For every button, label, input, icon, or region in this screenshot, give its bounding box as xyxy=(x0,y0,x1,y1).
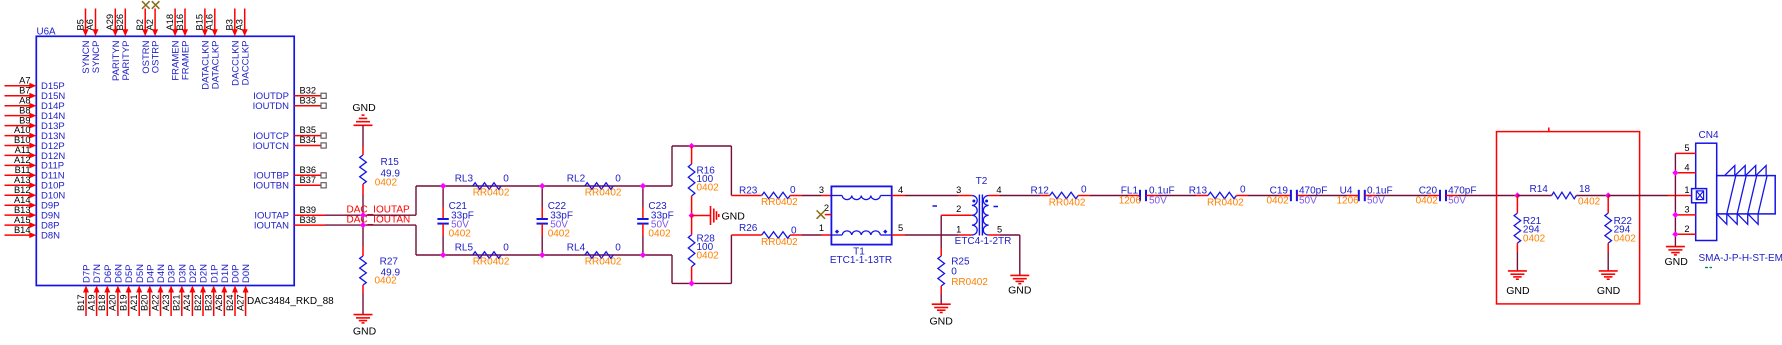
wire jog AN down to bottom rail xyxy=(415,225,417,255)
resistor RL3 0 ohm xyxy=(455,174,510,199)
svg-text:1: 1 xyxy=(1684,185,1689,195)
svg-text:0402: 0402 xyxy=(1416,196,1439,207)
resistor R12 xyxy=(1031,185,1088,209)
wire top rail jog up xyxy=(672,146,731,186)
svg-text:D3N: D3N xyxy=(177,264,188,283)
svg-text:0402: 0402 xyxy=(449,229,472,240)
svg-text:0: 0 xyxy=(790,185,796,196)
svg-text:B21: B21 xyxy=(172,295,182,312)
resistor R26 xyxy=(731,223,831,248)
wire T1 pin4 to T2 pin3 xyxy=(892,195,972,197)
svg-text:0: 0 xyxy=(503,243,509,254)
capacitor U4 0.1uF xyxy=(1337,186,1393,207)
junction R16 top xyxy=(688,143,694,149)
wire IOUTAN to jog xyxy=(325,224,416,226)
svg-text:GND: GND xyxy=(1506,285,1530,297)
net label DAC_IOUTAN xyxy=(347,215,411,226)
svg-text:PARITYP: PARITYP xyxy=(121,41,132,81)
svg-text:A10: A10 xyxy=(14,125,31,135)
wire bottom rail xyxy=(416,254,672,256)
svg-text:A15: A15 xyxy=(14,215,31,225)
svg-text:D7N: D7N xyxy=(92,264,103,283)
svg-text:DATACLKP: DATACLKP xyxy=(210,41,221,90)
svg-text:0: 0 xyxy=(503,174,509,185)
svg-text:GND: GND xyxy=(930,316,954,328)
svg-text:A8: A8 xyxy=(19,95,30,105)
resistor R25 xyxy=(938,256,988,288)
net label DAC_IOUTAP xyxy=(347,205,410,216)
svg-text:4: 4 xyxy=(996,185,1001,195)
svg-text:0: 0 xyxy=(1081,185,1087,196)
svg-text:A29: A29 xyxy=(105,14,115,31)
svg-text:50V: 50V xyxy=(1448,196,1466,207)
wire R13 to C19 xyxy=(1236,195,1291,197)
svg-text:3: 3 xyxy=(1684,205,1689,215)
IC part value DAC3484_RKD_88 xyxy=(247,296,334,307)
svg-text:RR0402: RR0402 xyxy=(761,197,798,208)
CN4 ground bus xyxy=(1674,153,1676,246)
junction CN4 pin2 xyxy=(1672,231,1678,237)
CN4 thread (SMA screw) xyxy=(1717,166,1776,225)
svg-text:A23: A23 xyxy=(161,295,171,312)
svg-text:R15: R15 xyxy=(381,157,400,168)
svg-text:D4P: D4P xyxy=(145,265,156,283)
svg-text:50V: 50V xyxy=(1149,196,1167,207)
svg-text:B2: B2 xyxy=(135,19,145,30)
svg-text:R13: R13 xyxy=(1189,186,1208,197)
IC bottom pins with pin numbers xyxy=(76,264,252,316)
svg-text:D8N: D8N xyxy=(41,230,60,241)
svg-text:D0N: D0N xyxy=(241,264,252,283)
svg-text:B18: B18 xyxy=(97,295,107,312)
svg-text:RL3: RL3 xyxy=(455,174,474,185)
ground under T2 pin5 xyxy=(1008,275,1032,296)
svg-text:0402: 0402 xyxy=(697,250,720,261)
svg-text:B35: B35 xyxy=(300,125,317,135)
ground under R25 xyxy=(930,304,954,327)
svg-text:A13: A13 xyxy=(14,175,31,185)
svg-text:R27: R27 xyxy=(380,257,399,268)
svg-text:D4N: D4N xyxy=(156,264,167,283)
svg-text:DACCLKP: DACCLKP xyxy=(240,41,251,86)
svg-text:A3: A3 xyxy=(235,19,245,30)
resistor R22 xyxy=(1605,196,1636,271)
IC top pins with pin numbers xyxy=(75,9,251,90)
ground sideways between R16 and R28 xyxy=(711,206,746,225)
resistor R21 xyxy=(1514,196,1545,271)
svg-text:ETC4-1-2TR: ETC4-1-2TR xyxy=(955,236,1012,247)
svg-text:DAC_IOUTAN: DAC_IOUTAN xyxy=(347,215,411,226)
svg-text:B24: B24 xyxy=(225,295,235,312)
transformer T2 ETC4-1-2TR xyxy=(933,176,1012,247)
svg-text:1206: 1206 xyxy=(1119,196,1142,207)
wire top rail xyxy=(416,185,672,187)
svg-text:D7P: D7P xyxy=(82,265,93,283)
resistor RL4 0 ohm xyxy=(567,243,622,268)
svg-text:B33: B33 xyxy=(300,95,317,105)
junction mid GND node xyxy=(688,212,694,218)
svg-text:B14: B14 xyxy=(14,225,31,235)
svg-text:B32: B32 xyxy=(300,86,317,96)
wire IOUTAP to jog xyxy=(325,214,416,216)
svg-text:D1P: D1P xyxy=(209,265,220,283)
capacitor FL1 0.1uF xyxy=(1119,186,1175,207)
resistor R23 xyxy=(731,185,831,208)
svg-text:0402: 0402 xyxy=(1578,197,1601,208)
svg-text:ETC1-1-13TR: ETC1-1-13TR xyxy=(830,255,892,266)
ground under CN4 bus xyxy=(1665,247,1689,268)
junction R28 bottom xyxy=(688,280,694,286)
resistor RL2 0 ohm xyxy=(567,174,622,199)
svg-text:B20: B20 xyxy=(140,295,150,312)
svg-text:R14: R14 xyxy=(1530,184,1549,195)
wire GND to R15 xyxy=(362,125,364,155)
svg-text:1: 1 xyxy=(819,223,824,233)
connector CN4 body xyxy=(1692,130,1719,241)
svg-text:A2: A2 xyxy=(145,19,155,30)
svg-text:D5N: D5N xyxy=(135,264,146,283)
svg-text:B17: B17 xyxy=(76,295,86,312)
svg-text:18: 18 xyxy=(1579,184,1591,195)
svg-text:IOUTCN: IOUTCN xyxy=(253,141,290,152)
IC right pins IOUTxx xyxy=(253,86,327,232)
svg-text:B26: B26 xyxy=(115,14,125,31)
svg-text:IOUTBN: IOUTBN xyxy=(253,181,289,192)
svg-text:R12: R12 xyxy=(1031,186,1050,197)
svg-text:A18: A18 xyxy=(165,14,175,31)
svg-text:GND: GND xyxy=(722,210,746,222)
wire bottom rail jog down xyxy=(672,255,731,283)
no-connect X on OSTRN xyxy=(142,1,150,9)
resistor R13 xyxy=(1189,185,1246,209)
ground under R22 xyxy=(1597,271,1621,297)
svg-text:B37: B37 xyxy=(300,175,317,185)
wire to sideways ground xyxy=(692,215,711,217)
svg-text:4: 4 xyxy=(898,185,903,195)
svg-text:B9: B9 xyxy=(19,115,30,125)
svg-text:D5P: D5P xyxy=(124,265,135,283)
T1 pin2 stub with no-connect X xyxy=(817,210,832,218)
resistor R27 xyxy=(360,246,401,286)
svg-text:3: 3 xyxy=(956,185,961,195)
svg-text:RL4: RL4 xyxy=(567,243,586,254)
svg-text:B3: B3 xyxy=(225,19,235,30)
wire down to R23 xyxy=(730,146,732,196)
svg-text:GND: GND xyxy=(1597,285,1621,297)
svg-text:A24: A24 xyxy=(182,295,192,312)
T2 pin2 wire xyxy=(941,214,972,216)
svg-text:RL5: RL5 xyxy=(455,243,474,254)
resistor R28 xyxy=(688,216,719,284)
svg-text:B16: B16 xyxy=(175,14,185,31)
wire up to R26 xyxy=(730,235,732,283)
svg-text:B36: B36 xyxy=(300,165,317,175)
GND power symbol above R15 xyxy=(352,102,376,125)
svg-text:A14: A14 xyxy=(14,195,31,205)
svg-text:A16: A16 xyxy=(205,14,215,31)
svg-text:50V: 50V xyxy=(1367,196,1385,207)
no-connect X on OSTRP xyxy=(152,1,160,9)
svg-text:A19: A19 xyxy=(86,295,96,312)
svg-text:SYNCP: SYNCP xyxy=(91,41,102,74)
wire R27 to GND xyxy=(362,285,364,315)
svg-text:DAC3484_RKD_88: DAC3484_RKD_88 xyxy=(247,296,334,307)
svg-text:B13: B13 xyxy=(14,205,31,215)
svg-text:B34: B34 xyxy=(300,135,317,145)
svg-text:D1N: D1N xyxy=(220,264,231,283)
svg-text:RR0402: RR0402 xyxy=(1207,197,1244,208)
wire R15 to DAC_IOUTAP xyxy=(362,184,364,215)
svg-text:0402: 0402 xyxy=(1614,233,1637,244)
red highlight box xyxy=(1497,128,1640,304)
IC left pins D15P..D8N with pin numbers xyxy=(5,76,66,242)
svg-text:RR0402: RR0402 xyxy=(585,256,622,267)
svg-text:RR0402: RR0402 xyxy=(585,187,622,198)
svg-text:D2P: D2P xyxy=(188,265,199,283)
capacitor C19 470pF xyxy=(1267,186,1328,207)
wire T1 pin5 to T2 pin1 xyxy=(892,234,972,236)
capacitor C23 33pF with junctions xyxy=(637,183,673,258)
wire T2 pin2 down to R25 xyxy=(940,215,942,256)
wire R25 to GND xyxy=(940,286,942,304)
svg-text:A26: A26 xyxy=(214,295,224,312)
svg-text:A21: A21 xyxy=(129,295,139,312)
svg-text:2: 2 xyxy=(1684,224,1689,234)
svg-text:OSTRP: OSTRP xyxy=(151,41,162,74)
svg-text:B15: B15 xyxy=(195,14,205,31)
svg-text:FRAMEP: FRAMEP xyxy=(181,41,192,81)
resistor R15 xyxy=(360,155,401,189)
svg-text:A20: A20 xyxy=(108,295,118,312)
svg-text:A12: A12 xyxy=(14,155,31,165)
svg-text:B39: B39 xyxy=(300,205,317,215)
junction CN4 pin3 xyxy=(1672,212,1678,218)
ground under R21 xyxy=(1506,271,1530,297)
svg-text:0402: 0402 xyxy=(1523,233,1546,244)
svg-text:B38: B38 xyxy=(300,215,317,225)
svg-text:0402: 0402 xyxy=(548,229,571,240)
svg-text:B5: B5 xyxy=(75,19,85,30)
svg-text:0402: 0402 xyxy=(375,275,398,286)
svg-text:50V: 50V xyxy=(1299,196,1317,207)
tiny marks under part number xyxy=(1705,267,1712,269)
wire C20 into red box xyxy=(1446,195,1517,197)
svg-text:5: 5 xyxy=(1684,143,1689,153)
svg-text:0: 0 xyxy=(615,243,621,254)
svg-text:4: 4 xyxy=(1684,163,1689,173)
junction CN4 pin4 xyxy=(1672,170,1678,176)
svg-text:0402: 0402 xyxy=(648,229,671,240)
svg-text:D3P: D3P xyxy=(167,265,178,283)
svg-text:RR0402: RR0402 xyxy=(1049,197,1086,208)
svg-text:GND: GND xyxy=(1665,256,1689,268)
svg-text:1: 1 xyxy=(956,224,961,234)
resistor R16 xyxy=(688,146,719,216)
svg-text:B19: B19 xyxy=(118,295,128,312)
wire DAC_IOUTAP vertical through to R27 xyxy=(362,215,364,246)
svg-text:B10: B10 xyxy=(14,135,31,145)
svg-text:B8: B8 xyxy=(19,105,30,115)
svg-text:CN4: CN4 xyxy=(1699,130,1719,141)
svg-text:A11: A11 xyxy=(15,145,31,155)
svg-text:RR0402: RR0402 xyxy=(951,277,988,288)
svg-text:B23: B23 xyxy=(204,295,214,312)
resistor RL5 0 ohm xyxy=(455,243,510,268)
resistor R14 xyxy=(1517,184,1608,208)
svg-text:5: 5 xyxy=(898,223,903,233)
junction R21 node xyxy=(1514,192,1520,198)
svg-text:GND: GND xyxy=(1008,285,1032,297)
svg-text:D6N: D6N xyxy=(114,264,125,283)
svg-text:0402: 0402 xyxy=(697,183,720,194)
CN4 part number xyxy=(1699,253,1782,264)
svg-text:0402: 0402 xyxy=(375,178,398,189)
capacitor C22 33pF with junctions xyxy=(537,183,573,258)
svg-text:D2N: D2N xyxy=(199,264,210,283)
svg-text:A6: A6 xyxy=(85,19,95,30)
svg-text:IOUTDN: IOUTDN xyxy=(253,101,290,112)
wire T2 pin5 to GND xyxy=(989,235,1020,275)
svg-text:0: 0 xyxy=(1240,185,1246,196)
svg-text:B11: B11 xyxy=(15,165,31,175)
svg-text:R23: R23 xyxy=(739,185,758,196)
svg-text:RR0402: RR0402 xyxy=(473,256,510,267)
wire FL1 to R13 xyxy=(1146,195,1208,197)
svg-text:GND: GND xyxy=(353,326,377,338)
svg-text:1206: 1206 xyxy=(1337,196,1360,207)
wire U4 to C20 xyxy=(1365,195,1440,197)
capacitor C21 33pF with junctions xyxy=(437,183,473,258)
svg-text:5: 5 xyxy=(997,224,1002,234)
svg-text:U6A: U6A xyxy=(37,27,57,38)
svg-text:T2: T2 xyxy=(976,176,988,187)
svg-text:RR0402: RR0402 xyxy=(473,187,510,198)
svg-text:RR0402: RR0402 xyxy=(761,237,798,248)
junction R22 node xyxy=(1605,192,1611,198)
svg-text:A7: A7 xyxy=(19,76,30,86)
svg-text:SMA-J-P-H-ST-EM1: SMA-J-P-H-ST-EM1 xyxy=(1699,253,1782,264)
wire R12 to FL1 xyxy=(1078,195,1140,197)
junction on IOUTAN at R27 xyxy=(360,222,366,228)
svg-text:A22: A22 xyxy=(150,295,160,312)
svg-text:B12: B12 xyxy=(14,185,31,195)
svg-text:R26: R26 xyxy=(739,223,758,234)
junction on IOUTAP at R15 xyxy=(360,212,366,218)
svg-text:GND: GND xyxy=(352,102,376,114)
IC U6A body xyxy=(36,27,294,286)
svg-text:A27: A27 xyxy=(235,295,245,312)
svg-text:D0P: D0P xyxy=(231,265,242,283)
svg-text:D6P: D6P xyxy=(103,265,114,283)
ground under R27 xyxy=(353,315,377,338)
svg-text:2: 2 xyxy=(956,204,961,214)
svg-text:0402: 0402 xyxy=(1267,196,1290,207)
CN4 pin stubs and numbers xyxy=(1675,143,1695,234)
svg-text:RL2: RL2 xyxy=(567,174,586,185)
capacitor C20 470pF xyxy=(1416,186,1477,207)
transformer T1 ETC1-1-13TR xyxy=(819,185,903,266)
svg-text:0: 0 xyxy=(615,174,621,185)
wire T2 pin4 to R12 xyxy=(989,195,1050,197)
wire C19 to U4 xyxy=(1297,195,1359,197)
svg-text:B7: B7 xyxy=(19,86,30,96)
svg-text:3: 3 xyxy=(819,185,824,195)
svg-text:IOUTAN: IOUTAN xyxy=(254,220,289,231)
svg-text:B22: B22 xyxy=(193,295,203,312)
wire R14 to CN4 pin1 xyxy=(1608,195,1691,197)
wire jog AP up to top rail xyxy=(415,186,417,215)
